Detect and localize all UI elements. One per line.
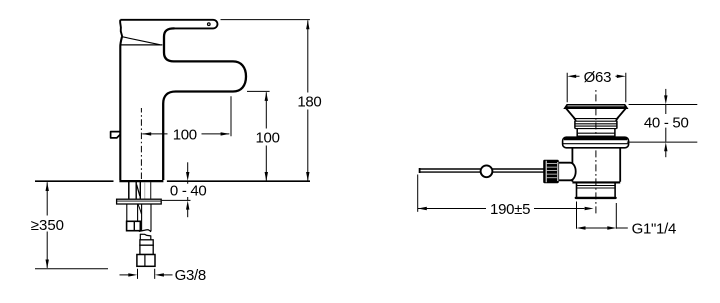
G3/8 dimension ticks [138,269,155,279]
dimension 40-50 down arrow [665,89,667,97]
dimension 0-40 extension line (washer top) [162,199,191,201]
body bottom edge [119,180,163,182]
dimension 0-40 lower arrow [187,209,189,218]
neck band B sides [577,129,615,138]
handle left wavy edge [120,20,122,37]
dimension G1"1/4 extension lines [577,202,617,229]
dimension 40-50 bottom extension line [627,141,697,143]
handle set-screw dot [208,23,211,26]
body top line [121,44,163,46]
pull-rod line below body [128,182,130,199]
dashed centerline of body [140,108,142,181]
horizontal pull rod [419,169,544,172]
hose crimp collar top [140,240,153,245]
dimension 190+-5 extension line [417,175,419,212]
tailpiece sides [577,183,616,197]
dimension O63 extension lines [567,73,626,103]
rod ball joint [481,165,493,177]
svg-text:100: 100 [256,129,280,146]
svg-text:G3/8: G3/8 [175,267,206,284]
flange seam line [563,143,628,145]
svg-text:G1"1/4: G1"1/4 [632,221,676,238]
hex nut facet line [144,255,146,267]
dimension 40-50 top extension line [629,104,698,106]
mounting nut [127,221,141,230]
hose below washer [142,204,151,231]
svg-text:Ø63: Ø63 [584,69,611,86]
dimension 0-40 inner stubs [187,182,189,201]
deck line right segment [167,180,310,182]
dimension O63 line [576,75,617,77]
dimension 0-40 upper arrow [187,162,189,172]
neck band A ridge lines [575,124,617,129]
handle skirt diagonal [122,37,160,45]
svg-text:190±5: 190±5 [490,201,530,218]
hose crimp collar bottom [140,245,153,254]
cone inner line [575,118,618,120]
hose-end extension line [35,268,108,270]
dimension 100 vertical extension line (spout outlet) [247,90,270,92]
wavy rod merge below washer [138,204,141,214]
hose lower bent segment [140,234,151,240]
cone bottom line [575,120,616,122]
svg-text:180: 180 [297,93,321,110]
svg-text:40 - 50: 40 - 50 [644,115,689,132]
svg-text:0 - 40: 0 - 40 [170,183,207,200]
mounting washer plate [117,199,162,204]
dimension 180 line [307,20,309,180]
threaded stud below washer [127,204,138,221]
waste body sides [572,148,620,182]
G3/8 dimension arrows [120,274,130,276]
waste body bottom [572,181,620,183]
dimension 100 horizontal line [142,133,229,135]
threaded stud pair with break diagonal [136,182,140,199]
tailpiece ring lines [577,186,616,189]
spout and body right outline [163,28,246,180]
left tab (hose clip) [111,132,121,138]
basin flange outline [563,137,629,148]
rod boss on waste body [558,163,576,181]
dimension G1"1/4 line [585,227,628,229]
rod end cap [419,168,421,173]
neck band A sides [575,121,617,129]
svg-text:100: 100 [173,126,197,143]
hose break squiggle upper [139,230,151,232]
dimension 100 vertical line [265,92,267,180]
dimension 180 extension line (handle top) [221,19,310,21]
knurled adjusting knob [543,160,559,183]
waste centerline dash-dot [595,89,597,216]
waste plug top disc [564,105,627,109]
dimension >=350 line [46,182,48,268]
G3/8 hex nut [137,255,155,267]
dimension 100 horizontal extension line (spout tip) [230,96,232,136]
svg-text:≥350: ≥350 [31,217,64,234]
plug cone sides [566,108,627,122]
flange top thick edge [564,137,627,140]
supply hose edges above washer [150,182,152,199]
faucet handle lever outline [120,20,217,29]
dimension 40-50 up arrow [665,150,667,157]
tailpiece bottom [576,197,616,199]
neck band B ridge lines [577,133,615,136]
dimension 190+-5 line [418,208,585,210]
deck line left segment [35,180,114,182]
dimension 40-50 inner line stubs [665,105,667,142]
mounting nut facet line [133,221,135,230]
body left edge [120,37,122,180]
